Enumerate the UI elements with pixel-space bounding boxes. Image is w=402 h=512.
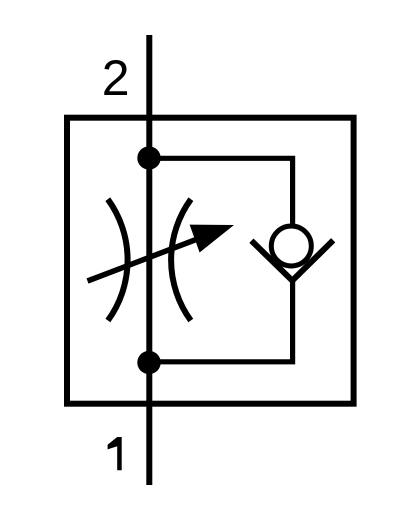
- check valve ball: [271, 226, 311, 266]
- svg-text:2: 2: [102, 50, 130, 106]
- wire: bypass lower branch: [149, 278, 293, 362]
- check valve seat: [251, 240, 333, 280]
- wire: bypass upper branch: [149, 158, 293, 226]
- throttle adjustment arrow shaft: [88, 238, 201, 281]
- junction node top: [137, 146, 160, 169]
- throttle left arc: [108, 199, 128, 320]
- throttle right arc: [171, 199, 191, 320]
- junction node bottom: [137, 351, 160, 374]
- wire: main flow path from port 2 to port 1: [146, 35, 152, 485]
- port label 1: [108, 437, 122, 470]
- valve enclosure box: [67, 118, 354, 404]
- throttle arrow head: [190, 225, 234, 253]
